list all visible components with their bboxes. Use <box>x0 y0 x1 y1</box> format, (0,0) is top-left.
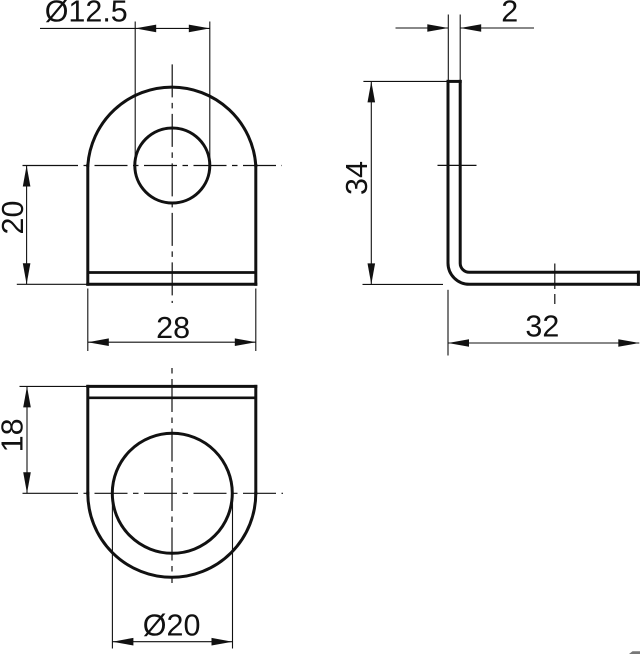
svg-text:32: 32 <box>525 309 559 343</box>
dimension 18 top extension line <box>20 385 88 387</box>
dimension Ø20 extension lines <box>111 496 113 649</box>
hole circle Ø12.5 <box>135 128 210 203</box>
svg-text:Ø12.5: Ø12.5 <box>45 0 128 28</box>
dimension 20 line <box>26 166 28 285</box>
bottom view vertical centerline <box>171 368 173 583</box>
dimension Ø12.5 extension lines <box>134 22 136 166</box>
dimension 32 line <box>448 342 639 344</box>
front view outline <box>88 87 256 284</box>
dimension 18 arrows <box>23 386 31 407</box>
svg-text:Ø20: Ø20 <box>143 609 201 643</box>
side view end cap <box>637 272 640 284</box>
dimension Ø20 line <box>112 641 232 643</box>
dimension 28 arrows <box>88 338 109 346</box>
dimension 20 arrows <box>23 166 31 187</box>
svg-text:20: 20 <box>0 201 30 235</box>
watermark corner mark <box>629 651 640 654</box>
dimension 34 line <box>370 81 372 284</box>
dimension Ø12.5 line <box>40 27 210 29</box>
svg-text:28: 28 <box>156 311 190 345</box>
bottom view horizontal centerline <box>23 492 73 494</box>
side view hole axis tick (vertical leg) <box>438 164 477 166</box>
dimension 2 arrows <box>427 24 448 32</box>
front view vertical centerline <box>171 64 173 303</box>
dimension 2 extension lines <box>447 15 449 81</box>
dimension 20 bottom extension line <box>17 283 89 285</box>
dimension 2 lines <box>396 27 449 29</box>
dimension 32 extension line <box>447 290 449 356</box>
dimension 34 extension lines <box>363 80 447 82</box>
dimension 28 extension lines <box>87 289 89 352</box>
front view horizontal centerline <box>23 165 73 167</box>
bottom view bend line <box>88 396 256 399</box>
svg-text:2: 2 <box>501 0 518 29</box>
side view hole axis tick (horizontal leg) <box>554 264 556 290</box>
dimension 32 arrows <box>448 339 469 347</box>
dimension 34 arrows <box>368 81 376 102</box>
side view outer contour <box>448 81 638 284</box>
bottom view outline <box>88 386 256 577</box>
svg-text:18: 18 <box>0 418 29 452</box>
dimension 18 line <box>26 386 28 493</box>
dimension Ø12.5 arrows <box>135 25 156 33</box>
dimension Ø20 arrows <box>112 638 133 646</box>
hole circle Ø20 <box>112 433 232 553</box>
side view inner contour <box>460 81 638 272</box>
side view top edge <box>448 80 460 83</box>
svg-text:34: 34 <box>340 161 374 195</box>
front view bend line <box>88 271 256 274</box>
dimension 28 line <box>88 341 256 343</box>
